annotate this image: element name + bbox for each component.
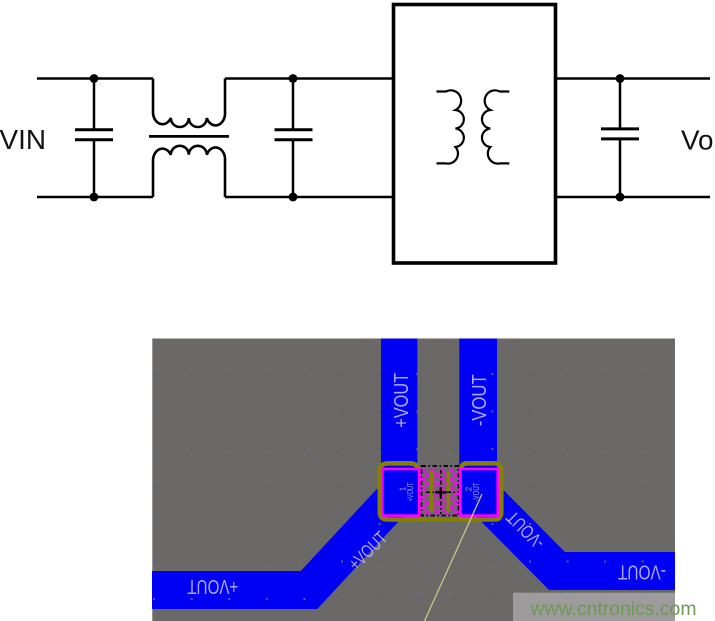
watermark box [513, 593, 715, 621]
capacitor C3 lead bottom [619, 139, 622, 197]
svg-text:-VOUT: -VOUT [468, 374, 491, 426]
trace -VOUT vertical [459, 339, 497, 471]
capacitor C1 lead bottom [93, 140, 96, 197]
ratsnest line [425, 494, 483, 621]
courtyard center cross [426, 470, 456, 514]
olive bar left [429, 471, 433, 512]
pad 2 label [465, 482, 482, 501]
keepout border left [419, 469, 421, 517]
wire bottom output [556, 196, 711, 199]
center cross bold [435, 487, 446, 498]
svg-text:www.cntronics.com: www.cntronics.com [529, 599, 696, 620]
transformer primary winding [437, 90, 464, 163]
svg-text:+VOUT: +VOUT [390, 372, 413, 427]
pad 1 [382, 469, 419, 516]
svg-text:Vo: Vo [681, 125, 714, 156]
wire top output [556, 77, 711, 80]
node dot top of C3 [616, 74, 625, 83]
capacitor C1 plates [75, 130, 113, 140]
keepout border right [458, 469, 460, 517]
capacitor C3 lead top [619, 79, 622, 129]
capacitor C1 lead top [93, 79, 96, 130]
DC-DC module box [394, 5, 556, 264]
pad 2 [460, 469, 497, 516]
courtyard dashed rect [422, 466, 459, 516]
capacitor C2 lead bottom [292, 140, 295, 197]
choke core line [149, 135, 229, 138]
node dot bottom of C1 [90, 193, 99, 202]
trace +VOUT lower-left run [152, 492, 400, 590]
svg-text:-VOUT: -VOUT [618, 561, 666, 584]
node dot top of C1 [90, 74, 99, 83]
capacitor C2 lead top [292, 79, 295, 130]
wire bottom input [37, 196, 153, 199]
wire bottom between choke and module [225, 196, 394, 199]
svg-text:VIN: VIN [0, 124, 46, 155]
pad 1 label [399, 482, 416, 501]
svg-text:+VOUT: +VOUT [187, 575, 238, 598]
capacitor C3 plates [601, 129, 639, 139]
trace +VOUT vertical [381, 339, 417, 471]
wire top between choke and module [225, 77, 394, 80]
common-mode choke bottom winding [153, 146, 225, 197]
pcb background [152, 339, 675, 621]
silkscreen outline (olive) [380, 463, 502, 519]
svg-text:+VOUT: +VOUT [406, 482, 415, 501]
node dot top of C2 [289, 74, 298, 83]
keepout hatch between pads [420, 469, 461, 517]
node dot bottom of C2 [289, 193, 298, 202]
transformer secondary winding [482, 90, 509, 163]
trace -VOUT lower-right run [479, 492, 675, 571]
capacitor C2 plates [275, 130, 313, 140]
common-mode choke top winding [153, 79, 225, 128]
pcb grid dots [153, 373, 644, 600]
olive bar right [447, 471, 451, 512]
node dot bottom of C3 [616, 193, 625, 202]
wire top input [37, 77, 153, 80]
